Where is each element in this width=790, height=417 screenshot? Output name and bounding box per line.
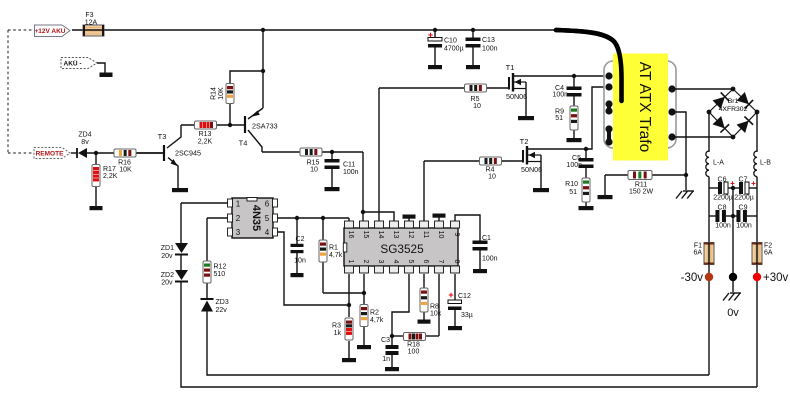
svg-text:F1: F1 — [694, 243, 702, 250]
svg-text:+: + — [448, 290, 453, 300]
svg-text:10n: 10n — [294, 258, 306, 265]
svg-text:7: 7 — [437, 260, 444, 264]
svg-text:R16: R16 — [118, 160, 131, 167]
svg-text:6A: 6A — [764, 250, 773, 257]
svg-text:R3: R3 — [332, 323, 341, 330]
svg-text:C13: C13 — [482, 37, 495, 44]
svg-text:C8: C8 — [718, 205, 727, 212]
svg-text:AKÜ -: AKÜ - — [64, 59, 82, 68]
svg-text:16: 16 — [347, 231, 354, 239]
svg-text:6: 6 — [265, 200, 270, 209]
svg-text:10: 10 — [310, 167, 318, 174]
svg-text:1: 1 — [236, 200, 241, 209]
svg-text:ZD4: ZD4 — [78, 132, 91, 139]
svg-text:51: 51 — [569, 189, 577, 196]
svg-text:2200µ: 2200µ — [734, 195, 754, 202]
svg-text:20v: 20v — [161, 253, 173, 260]
svg-text:20v: 20v — [161, 280, 173, 287]
svg-text:C7: C7 — [739, 177, 748, 184]
svg-text:5: 5 — [265, 214, 270, 223]
svg-text:-30v: -30v — [681, 272, 704, 284]
svg-text:15: 15 — [362, 231, 369, 239]
svg-text:+: + — [751, 179, 756, 188]
svg-text:1n: 1n — [382, 356, 390, 363]
svg-text:2,2K: 2,2K — [103, 173, 118, 180]
svg-text:100: 100 — [408, 349, 420, 356]
svg-text:100n: 100n — [552, 92, 568, 99]
svg-text:100n: 100n — [482, 46, 498, 53]
svg-text:C2: C2 — [296, 236, 305, 243]
svg-text:R13: R13 — [199, 131, 212, 138]
svg-text:R1: R1 — [329, 245, 338, 252]
svg-text:R14: R14 — [211, 87, 218, 100]
svg-text:6A: 6A — [693, 250, 702, 257]
svg-text:T3: T3 — [158, 132, 167, 141]
svg-text:33µ: 33µ — [461, 312, 473, 319]
svg-text:L-B: L-B — [760, 160, 771, 167]
svg-text:R11: R11 — [635, 182, 647, 189]
svg-text:13: 13 — [392, 231, 399, 239]
svg-text:3: 3 — [377, 260, 384, 264]
svg-text:F3: F3 — [85, 12, 93, 19]
svg-text:5: 5 — [407, 260, 414, 264]
svg-text:C12: C12 — [458, 293, 471, 300]
svg-text:10: 10 — [473, 103, 481, 110]
svg-text:F2: F2 — [764, 243, 772, 250]
svg-text:R17: R17 — [103, 166, 116, 173]
svg-text:REMOTE: REMOTE — [36, 151, 64, 158]
svg-text:4,7k: 4,7k — [329, 252, 343, 259]
svg-text:R8: R8 — [430, 304, 439, 311]
svg-text:4: 4 — [265, 228, 270, 237]
svg-text:11: 11 — [422, 231, 429, 238]
svg-text:9: 9 — [453, 233, 460, 237]
svg-text:150 2W: 150 2W — [629, 189, 654, 196]
svg-text:R5: R5 — [471, 96, 480, 103]
svg-text:4,7k: 4,7k — [370, 317, 384, 324]
svg-text:100n: 100n — [736, 223, 752, 230]
svg-text:R12: R12 — [214, 264, 227, 271]
svg-text:2SA733: 2SA733 — [252, 122, 278, 131]
svg-text:22v: 22v — [216, 307, 228, 314]
svg-text:2200µ: 2200µ — [713, 195, 733, 202]
svg-text:6: 6 — [422, 260, 429, 264]
svg-text:4XFR302: 4XFR302 — [719, 106, 748, 113]
svg-text:10: 10 — [437, 231, 444, 239]
svg-text:4N35: 4N35 — [250, 205, 262, 231]
svg-text:C11: C11 — [343, 162, 355, 169]
svg-text:10: 10 — [488, 174, 496, 181]
svg-text:4700µ: 4700µ — [444, 46, 464, 53]
svg-text:14: 14 — [377, 231, 384, 239]
svg-text:R15: R15 — [307, 160, 320, 167]
svg-text:C10: C10 — [444, 38, 457, 45]
svg-text:10K: 10K — [119, 167, 132, 174]
svg-text:8v: 8v — [81, 139, 89, 146]
svg-text:2SC945: 2SC945 — [175, 149, 201, 158]
svg-text:51: 51 — [555, 115, 563, 122]
svg-text:3: 3 — [236, 228, 241, 237]
svg-text:+30v: +30v — [763, 272, 789, 284]
svg-text:2: 2 — [362, 260, 369, 264]
svg-text:R4: R4 — [486, 167, 495, 174]
svg-text:SG3525: SG3525 — [380, 242, 424, 256]
svg-text:R10: R10 — [565, 181, 578, 188]
svg-text:L-A: L-A — [713, 160, 724, 167]
svg-text:T1: T1 — [506, 63, 515, 72]
svg-text:T2: T2 — [520, 137, 529, 146]
svg-text:4: 4 — [392, 260, 399, 264]
svg-text:ZD3: ZD3 — [216, 299, 229, 306]
svg-text:100n: 100n — [566, 162, 582, 169]
svg-text:T4: T4 — [239, 139, 248, 148]
svg-text:100n: 100n — [343, 169, 359, 176]
svg-text:12A: 12A — [85, 20, 98, 27]
svg-text:C3: C3 — [381, 337, 390, 344]
svg-text:+12V AKU: +12V AKU — [34, 28, 65, 35]
svg-text:C9: C9 — [739, 205, 748, 212]
svg-text:12: 12 — [407, 231, 414, 239]
svg-text:2: 2 — [236, 214, 241, 223]
svg-text:100n: 100n — [482, 256, 498, 263]
svg-text:50N06: 50N06 — [506, 92, 527, 101]
svg-text:8: 8 — [453, 260, 460, 264]
svg-text:1: 1 — [347, 260, 354, 264]
svg-text:ZD1: ZD1 — [161, 245, 174, 252]
svg-text:C1: C1 — [482, 235, 491, 242]
svg-text:2,2K: 2,2K — [198, 139, 213, 146]
svg-text:ZD2: ZD2 — [161, 272, 174, 279]
svg-text:+: + — [428, 30, 433, 40]
svg-text:0v: 0v — [727, 307, 739, 319]
svg-text:10k: 10k — [430, 311, 442, 318]
svg-text:C5: C5 — [572, 155, 581, 162]
svg-text:10K: 10K — [218, 87, 225, 100]
svg-text:R2: R2 — [370, 310, 379, 317]
svg-text:1k: 1k — [334, 330, 342, 337]
svg-text:Br1: Br1 — [728, 98, 739, 105]
svg-text:100n: 100n — [715, 223, 731, 230]
svg-text:C6: C6 — [718, 177, 727, 184]
svg-text:510: 510 — [214, 271, 226, 278]
svg-text:R18: R18 — [407, 342, 420, 349]
svg-text:AT ATX Trafo: AT ATX Trafo — [636, 62, 653, 152]
svg-text:50N06: 50N06 — [521, 165, 542, 174]
